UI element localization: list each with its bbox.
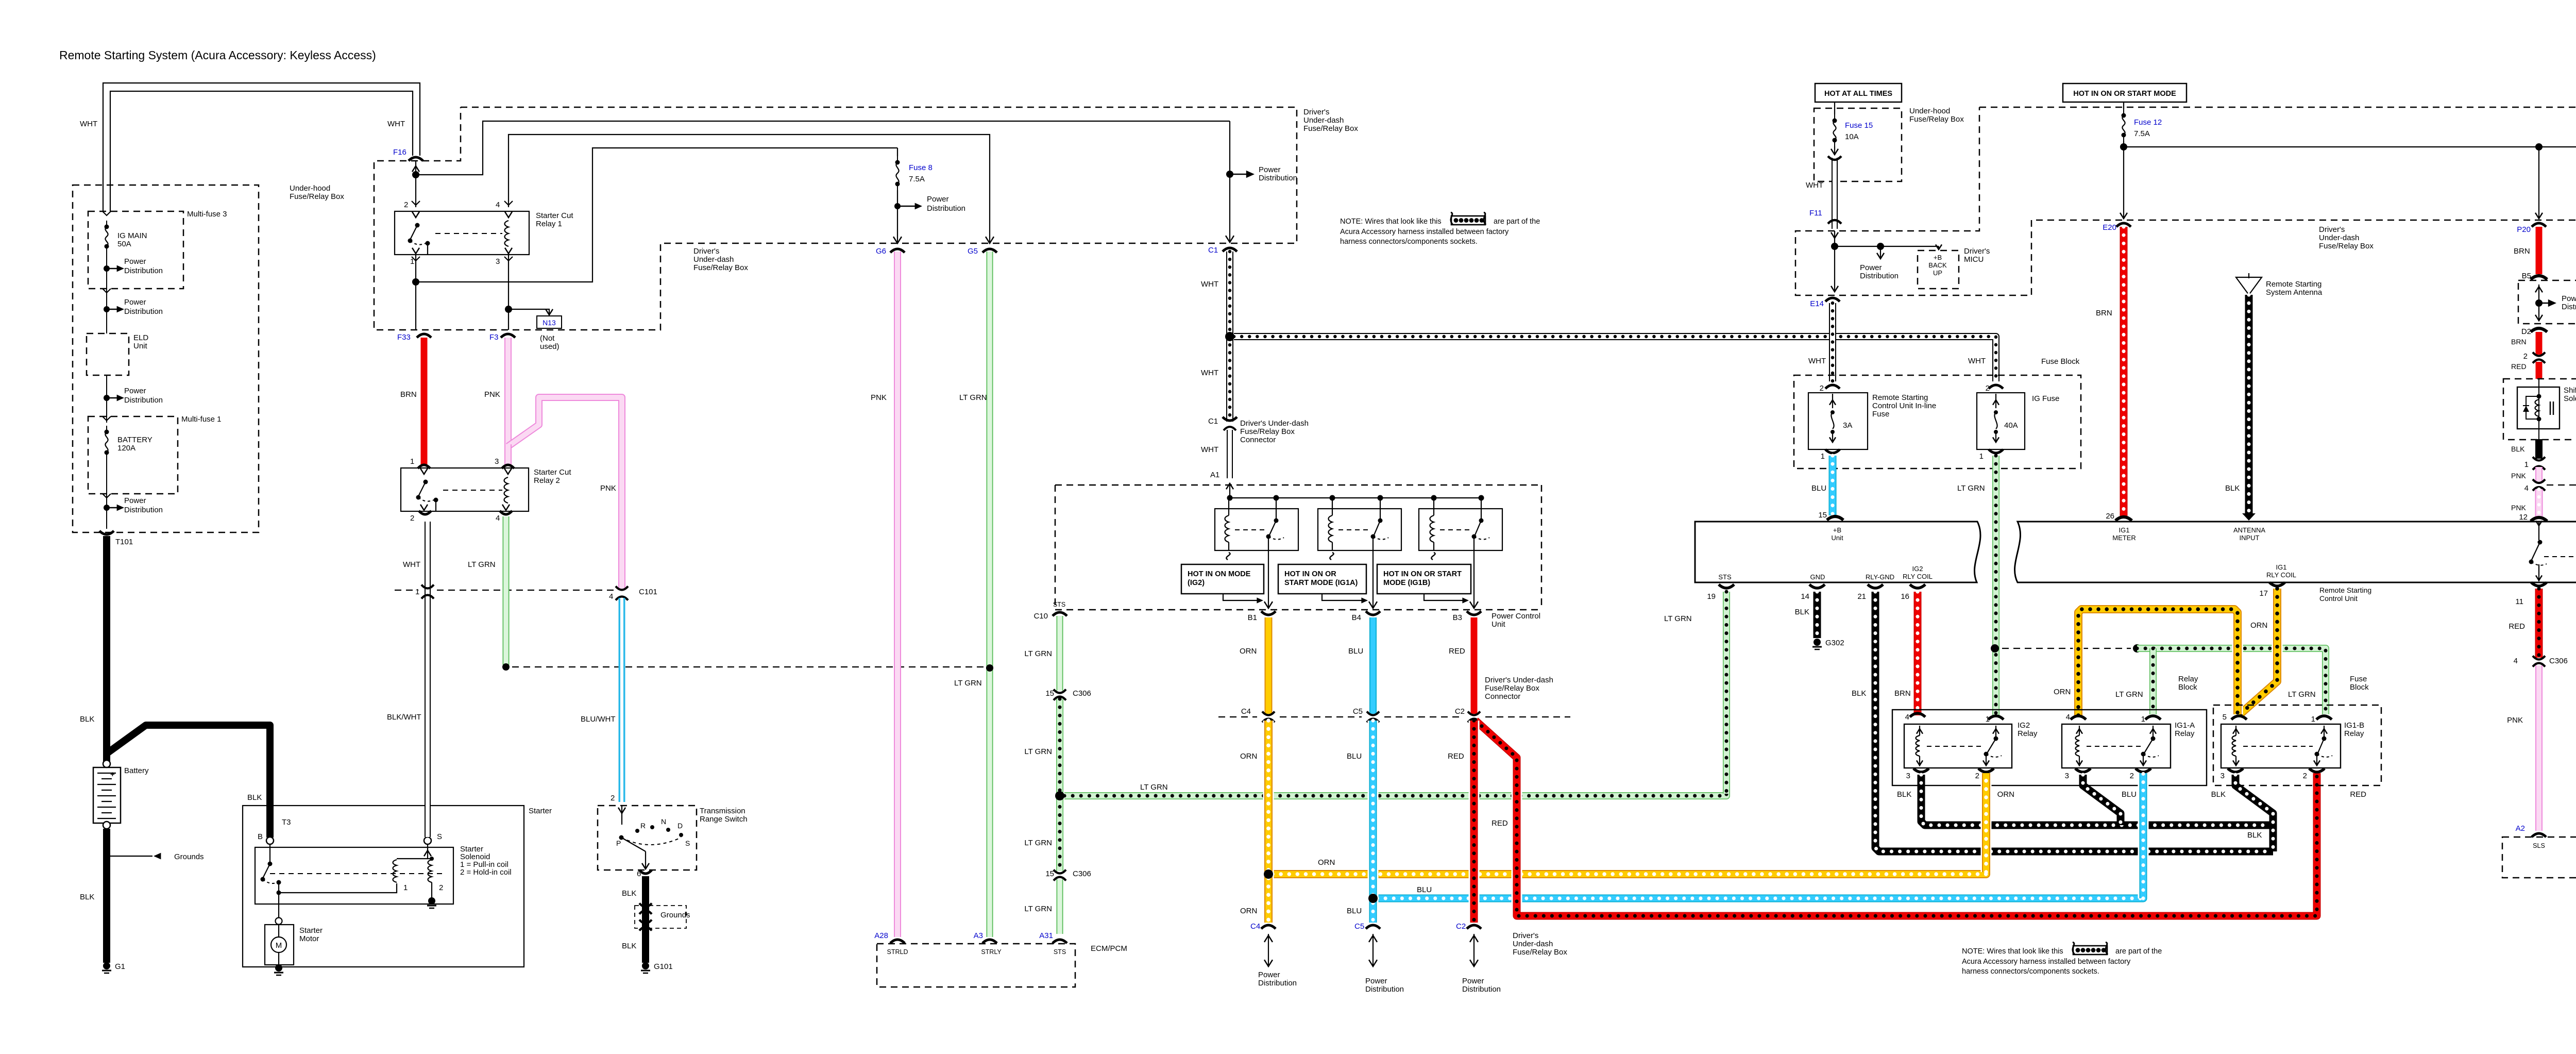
svg-text:2: 2 bbox=[2303, 772, 2307, 780]
svg-text:Under-dash: Under-dash bbox=[693, 255, 734, 264]
relay2 coil bbox=[504, 477, 509, 503]
svg-text:BRN: BRN bbox=[2514, 247, 2530, 256]
relay Starter Cut Relay 2 bbox=[401, 468, 529, 511]
svg-text:Distribution: Distribution bbox=[124, 506, 163, 514]
dashed C306 link to X triangle bbox=[2547, 484, 2576, 486]
svg-text:IG2: IG2 bbox=[1912, 565, 1923, 573]
svg-text:LT GRN: LT GRN bbox=[1957, 484, 1985, 493]
svg-text:Relay: Relay bbox=[2175, 729, 2195, 738]
dashed same-circuit link (relay feeds) bbox=[2002, 648, 2131, 649]
node Power Distribution 2 bbox=[104, 306, 110, 312]
svg-text:7.5A: 7.5A bbox=[2134, 129, 2150, 138]
svg-text:Unit: Unit bbox=[1492, 620, 1506, 629]
svg-text:RED: RED bbox=[1449, 647, 1465, 656]
svg-text:BLK: BLK bbox=[1897, 790, 1911, 799]
svg-text:BLU: BLU bbox=[1347, 752, 1362, 761]
connector strip control unit (main) bbox=[2015, 522, 2576, 582]
box Starter bbox=[243, 806, 524, 967]
svg-text:BLK: BLK bbox=[622, 889, 636, 898]
svg-text:1: 1 bbox=[2311, 715, 2315, 724]
svg-text:Fuse: Fuse bbox=[1872, 410, 1889, 419]
wire PNK beaded to 12 bbox=[2535, 489, 2543, 516]
svg-text:LT GRN: LT GRN bbox=[1664, 614, 1692, 623]
svg-text:STS: STS bbox=[1718, 573, 1732, 581]
wire LT GRN relay2 pin4 down bbox=[503, 516, 510, 665]
node F16 junction bbox=[412, 171, 419, 178]
svg-text:Range Switch: Range Switch bbox=[700, 815, 748, 824]
svg-text:BLU/WHT: BLU/WHT bbox=[581, 715, 616, 724]
svg-text:Power: Power bbox=[124, 298, 146, 307]
box Driver's Under-dash Fuse/Relay Box (left, notched) bbox=[374, 107, 1297, 330]
svg-text:Fuse/Relay Box: Fuse/Relay Box bbox=[1485, 684, 1539, 693]
svg-text:G1: G1 bbox=[115, 962, 125, 971]
box Fuse Block (E14 3A / IG fuse) bbox=[1794, 375, 2081, 469]
wire WHT / BLK-WHT relay2 pin2 to S terminal bbox=[425, 522, 431, 837]
svg-text:LT GRN: LT GRN bbox=[2115, 690, 2143, 699]
svg-text:IG Fuse: IG Fuse bbox=[2032, 394, 2059, 403]
svg-text:17: 17 bbox=[2259, 589, 2268, 598]
svg-text:12: 12 bbox=[2519, 513, 2528, 522]
svg-text:Relay: Relay bbox=[2344, 729, 2364, 738]
svg-text:G6: G6 bbox=[876, 247, 886, 256]
svg-text:3: 3 bbox=[496, 257, 500, 266]
svg-text:LT GRN: LT GRN bbox=[1024, 905, 1052, 913]
wire RED to shift lock solenoid bbox=[2536, 362, 2543, 379]
fuse Fuse 15 10A bbox=[1834, 102, 1835, 114]
svg-text:(IG2): (IG2) bbox=[1188, 579, 1205, 587]
ground G302 bbox=[1814, 639, 1821, 646]
svg-text:C2: C2 bbox=[1455, 707, 1465, 716]
svg-text:Starter Cut: Starter Cut bbox=[534, 468, 571, 477]
wire RED beaded C2 down bbox=[1469, 721, 1480, 923]
svg-text:BLU: BLU bbox=[1417, 885, 1432, 894]
label box HOT IN ON OR START MODE (IG1A) bbox=[1278, 564, 1366, 594]
svg-text:3: 3 bbox=[2221, 772, 2225, 780]
fuse BATTERY 120A bbox=[106, 426, 107, 432]
svg-text:21: 21 bbox=[1857, 592, 1866, 601]
svg-text:WHT: WHT bbox=[1806, 181, 1823, 190]
svg-text:2: 2 bbox=[404, 200, 408, 209]
wire WHT top rail double-line bbox=[103, 83, 420, 211]
svg-text:START MODE (IG1A): START MODE (IG1A) bbox=[1284, 579, 1358, 587]
wire BRN beaded E20 to 26 bbox=[2120, 227, 2128, 516]
svg-text:Fuse Block: Fuse Block bbox=[2041, 357, 2080, 366]
dashed interface line C101 level bbox=[395, 590, 418, 591]
svg-text:5: 5 bbox=[2223, 713, 2227, 722]
svg-text:ORN: ORN bbox=[1318, 858, 1335, 867]
wire ORN beaded IG1-A pin4 link bbox=[2078, 609, 2238, 715]
wire below ELD bbox=[106, 375, 107, 423]
svg-text:Relay 2: Relay 2 bbox=[534, 476, 560, 485]
svg-text:Under-hood: Under-hood bbox=[1909, 107, 1950, 115]
wire RED beaded C2 fork to IG1-B relay bbox=[1476, 721, 2317, 916]
svg-text:+B: +B bbox=[1934, 254, 1942, 261]
svg-text:Distribution: Distribution bbox=[2562, 303, 2576, 311]
svg-text:BLU: BLU bbox=[1811, 484, 1826, 493]
svg-text:Solenoid: Solenoid bbox=[2564, 394, 2576, 403]
connector T101 bbox=[99, 531, 114, 534]
svg-text:M: M bbox=[276, 941, 282, 950]
relay PCU IG1B relay bbox=[1419, 509, 1502, 550]
svg-text:Relay 1: Relay 1 bbox=[536, 220, 562, 228]
svg-text:Power: Power bbox=[124, 257, 146, 266]
svg-text:Driver's: Driver's bbox=[1513, 931, 1538, 940]
svg-text:BRN: BRN bbox=[2511, 338, 2527, 346]
svg-text:BLK/WHT: BLK/WHT bbox=[387, 713, 421, 722]
svg-text:ORN: ORN bbox=[2054, 688, 2071, 696]
svg-text:2: 2 bbox=[2130, 772, 2134, 780]
svg-text:Connector: Connector bbox=[1240, 436, 1276, 444]
svg-text:BATTERY: BATTERY bbox=[117, 436, 152, 444]
svg-text:WHT: WHT bbox=[387, 120, 405, 128]
svg-text:S: S bbox=[437, 832, 442, 841]
svg-text:2: 2 bbox=[1820, 384, 1824, 393]
wire relay1 pin1 to fuse8 bbox=[415, 255, 416, 330]
svg-text:Transmission: Transmission bbox=[700, 807, 745, 815]
svg-text:Driver's: Driver's bbox=[1964, 247, 1990, 256]
svg-text:Fuse/Relay Box: Fuse/Relay Box bbox=[2319, 242, 2374, 250]
box ELD Unit bbox=[87, 333, 129, 375]
svg-text:Distribution: Distribution bbox=[1365, 985, 1404, 994]
svg-text:4: 4 bbox=[1905, 713, 1909, 722]
svg-text:Under-dash: Under-dash bbox=[1513, 940, 1553, 948]
svg-text:Remote Starting: Remote Starting bbox=[2266, 280, 2321, 289]
wire BLK battery feed bbox=[103, 536, 110, 762]
svg-text:2 = Hold-in coil: 2 = Hold-in coil bbox=[460, 868, 512, 877]
svg-text:LT GRN: LT GRN bbox=[1140, 783, 1168, 792]
relay1 coil bbox=[505, 221, 509, 246]
svg-text:Fuse/Relay Box: Fuse/Relay Box bbox=[1909, 115, 1964, 124]
svg-text:MICU: MICU bbox=[1964, 255, 1984, 264]
svg-text:RED: RED bbox=[1492, 819, 1508, 828]
wire BLK IG1-A pin3 diagonal bbox=[2083, 775, 2121, 825]
wire B4 drop inside PCU bbox=[1372, 550, 1374, 608]
svg-text:Starter: Starter bbox=[529, 807, 552, 815]
svg-text:LT GRN: LT GRN bbox=[468, 560, 496, 569]
svg-text:G302: G302 bbox=[1825, 639, 1844, 647]
wire LT GRN beaded riser IG1-A pin1 bbox=[2149, 648, 2157, 714]
fuse box Remote Starting Control Unit In-line Fuse 3A bbox=[1808, 393, 1868, 449]
wire BLK beaded GND to G302 bbox=[1814, 592, 1821, 638]
svg-text:INPUT: INPUT bbox=[2240, 534, 2260, 542]
wire F11 to E14 bbox=[1831, 232, 1838, 238]
solenoid pull-in coil 1 bbox=[393, 860, 397, 882]
label box HOT IN ON OR START MODE (IG1B) bbox=[1377, 564, 1471, 594]
svg-text:Power: Power bbox=[1365, 977, 1387, 985]
connector 15 (+B Unit) bbox=[1827, 516, 1843, 520]
wire LT GRN to A31 bbox=[1057, 879, 1063, 934]
svg-text:Driver's: Driver's bbox=[1303, 108, 1329, 116]
wire WHT C1 power distribution drop bbox=[1229, 121, 1230, 242]
wire WHT to C1 top rail bbox=[416, 121, 1230, 175]
svg-text:3A: 3A bbox=[1843, 421, 1852, 430]
svg-text:S: S bbox=[685, 839, 690, 847]
svg-text:BLU: BLU bbox=[1347, 907, 1362, 915]
box Driver's Under-dash Fuse/Relay Box (right, notched) bbox=[1795, 107, 2576, 295]
wire LT GRN C10 down bbox=[1057, 616, 1063, 691]
svg-text:METER: METER bbox=[2112, 534, 2136, 542]
terminal S bbox=[424, 837, 431, 844]
svg-text:BLK: BLK bbox=[1852, 689, 1866, 698]
svg-text:Driver's Under-dash: Driver's Under-dash bbox=[1240, 419, 1309, 428]
box Fuse Block (relays) bbox=[2213, 705, 2381, 785]
svg-text:GND: GND bbox=[1810, 573, 1825, 581]
svg-text:BRN: BRN bbox=[2096, 309, 2112, 317]
wire BLK branch to starter B bbox=[107, 725, 270, 838]
wire to Power Distribution 1 bbox=[106, 253, 107, 289]
svg-text:A31: A31 bbox=[1039, 931, 1053, 940]
svg-text:A3: A3 bbox=[974, 931, 983, 940]
wire PNK G6 to A28 bbox=[894, 252, 901, 937]
svg-text:ORN: ORN bbox=[1240, 907, 1257, 915]
wire PNK to A2 bbox=[2535, 665, 2543, 831]
node power distribution branch bbox=[1877, 243, 1884, 250]
svg-text:1: 1 bbox=[410, 457, 414, 466]
svg-text:HOT IN ON OR: HOT IN ON OR bbox=[1284, 570, 1336, 578]
svg-text:4: 4 bbox=[496, 514, 500, 523]
svg-text:LT GRN: LT GRN bbox=[1024, 649, 1052, 658]
svg-text:C5: C5 bbox=[1353, 707, 1363, 716]
svg-text:Power: Power bbox=[124, 387, 146, 395]
wire B3 drop inside PCU bbox=[1473, 550, 1475, 608]
wire BLK beaded RLY-GND bbox=[1875, 592, 2273, 851]
svg-text:A2: A2 bbox=[2516, 824, 2525, 833]
svg-text:RED: RED bbox=[2509, 622, 2525, 631]
svg-text:Power Control: Power Control bbox=[1492, 612, 1540, 621]
svg-text:ELD: ELD bbox=[133, 333, 148, 342]
svg-text:LT GRN: LT GRN bbox=[954, 679, 982, 688]
svg-text:Driver's Under-dash: Driver's Under-dash bbox=[1485, 676, 1553, 684]
svg-text:STS: STS bbox=[1054, 948, 1066, 956]
svg-text:4: 4 bbox=[496, 200, 500, 209]
wire F16 to relay1 pin2 bbox=[415, 161, 416, 207]
svg-text:R: R bbox=[640, 822, 646, 830]
svg-text:RED: RED bbox=[2511, 362, 2527, 371]
wire BLU beaded C5 down bbox=[1368, 721, 1379, 923]
svg-text:Fuse 15: Fuse 15 bbox=[1845, 121, 1873, 130]
wire BLK beaded antenna down bbox=[2245, 295, 2253, 513]
solenoid ground bbox=[431, 882, 432, 898]
wire left feed bbox=[106, 289, 107, 333]
svg-text:IG1-A: IG1-A bbox=[2175, 721, 2195, 730]
svg-text:RLY COIL: RLY COIL bbox=[1903, 573, 1933, 580]
relay PCU IG1A relay bbox=[1318, 509, 1401, 550]
svg-text:IG2: IG2 bbox=[2018, 721, 2030, 730]
svg-text:C2: C2 bbox=[1456, 922, 1466, 931]
grounds boxlet bbox=[635, 906, 686, 928]
dashed under-dash connector line bbox=[1218, 716, 1257, 717]
fuse box IG Fuse 40A bbox=[1977, 393, 2025, 449]
wire BRN D2 bbox=[2536, 332, 2543, 355]
svg-text:ECM/PCM: ECM/PCM bbox=[1091, 944, 1127, 953]
node LT GRN dashed link right (redraw) bbox=[986, 664, 993, 672]
svg-text:E14: E14 bbox=[1810, 299, 1824, 308]
svg-text:C306: C306 bbox=[1073, 869, 1091, 878]
svg-text:IG MAIN: IG MAIN bbox=[117, 231, 147, 240]
wire PNK into relay2 pin3 bbox=[504, 444, 512, 465]
svg-text:10A: 10A bbox=[1845, 132, 1859, 141]
wire relay1 pin3 to F3 bbox=[508, 255, 509, 330]
svg-text:1: 1 bbox=[1821, 452, 1825, 461]
svg-text:Fuse 12: Fuse 12 bbox=[2134, 118, 2162, 127]
svg-text:Fuse/Relay Box: Fuse/Relay Box bbox=[693, 263, 748, 272]
svg-text:SLS: SLS bbox=[2533, 842, 2545, 849]
svg-text:Relay: Relay bbox=[2178, 675, 2198, 683]
svg-text:2: 2 bbox=[2523, 352, 2528, 361]
battery bbox=[103, 760, 110, 767]
svg-text:+B: +B bbox=[1833, 526, 1841, 534]
svg-text:2: 2 bbox=[410, 514, 414, 523]
wire WHT C1 to A1 bbox=[1227, 430, 1233, 478]
svg-text:Power: Power bbox=[927, 195, 949, 204]
node C1 power distribution bbox=[1226, 171, 1233, 178]
wire ORN beaded C4 down bbox=[1263, 721, 1274, 923]
wire BLK shift lock down bbox=[2538, 429, 2539, 439]
box Driver's Junction Box 1 (left part, power distribution) bbox=[2518, 280, 2576, 324]
svg-text:3: 3 bbox=[495, 457, 499, 466]
svg-text:BRN: BRN bbox=[400, 390, 417, 399]
svg-text:Remote Starting: Remote Starting bbox=[2319, 586, 2371, 594]
wire LT GRN beaded horizontal (STS link) bbox=[1064, 600, 1726, 796]
svg-text:are part of the: are part of the bbox=[2115, 947, 2162, 956]
connector N13 (not used) bbox=[509, 309, 549, 315]
wire BLU B4 to C5 bbox=[1369, 617, 1377, 714]
svg-text:PNK: PNK bbox=[2507, 716, 2523, 725]
svg-text:Driver's: Driver's bbox=[693, 247, 719, 256]
wire ORN beaded horizontal to IG2 relay bbox=[1273, 773, 1986, 874]
antenna Remote Starting System Antenna bbox=[2236, 277, 2262, 295]
svg-text:C4: C4 bbox=[1241, 707, 1251, 716]
svg-text:Driver's: Driver's bbox=[2319, 225, 2345, 234]
svg-text:HOT IN ON OR START MODE: HOT IN ON OR START MODE bbox=[2073, 90, 2176, 98]
wire LT GRN G5 to A3 bbox=[987, 252, 993, 937]
svg-text:Fuse/Relay Box: Fuse/Relay Box bbox=[1513, 948, 1567, 957]
svg-text:1: 1 bbox=[403, 883, 408, 892]
svg-text:LT GRN: LT GRN bbox=[1024, 839, 1052, 847]
svg-text:Distribution: Distribution bbox=[1462, 985, 1501, 994]
svg-text:11: 11 bbox=[2515, 597, 2523, 606]
svg-text:harness connectors/components: harness connectors/components sockets. bbox=[1340, 238, 1478, 246]
svg-text:2: 2 bbox=[439, 883, 443, 892]
wire RED B3 to C2 bbox=[1471, 617, 1478, 714]
node dashed link right bbox=[2133, 644, 2141, 653]
svg-text:Relay: Relay bbox=[2018, 729, 2038, 738]
svg-text:Control Unit In-line: Control Unit In-line bbox=[1872, 401, 1936, 410]
svg-text:MODE (IG1B): MODE (IG1B) bbox=[1383, 579, 1430, 587]
svg-text:1: 1 bbox=[1979, 452, 1984, 461]
svg-text:A1: A1 bbox=[1210, 471, 1219, 479]
wire PNK branch to C101 bbox=[508, 397, 622, 589]
svg-text:Power: Power bbox=[1860, 263, 1882, 272]
wire RED beaded IG2 RLY COIL to relay pin4 bbox=[1914, 592, 1922, 715]
svg-text:BLK: BLK bbox=[1795, 608, 1809, 616]
wire LT GRN beaded horizontal to IG1-B pin1 bbox=[2137, 648, 2326, 714]
connector A1 bbox=[1226, 483, 1233, 489]
strip internal relay switch bbox=[2538, 522, 2539, 540]
svg-text:Unit: Unit bbox=[133, 342, 148, 350]
power distribution arrows below C4 C5 C2 bbox=[1268, 934, 1269, 966]
grounds arrow bbox=[110, 856, 152, 857]
svg-text:ANTENNA: ANTENNA bbox=[2233, 526, 2265, 534]
box Relay Block bbox=[1892, 710, 2207, 785]
svg-text:B4: B4 bbox=[1352, 613, 1361, 622]
svg-text:C4: C4 bbox=[1250, 922, 1260, 931]
svg-text:HOT IN ON MODE: HOT IN ON MODE bbox=[1188, 570, 1251, 578]
wire WHT F11 double-line bbox=[1832, 158, 1838, 229]
svg-text:ORN: ORN bbox=[1240, 647, 1257, 656]
starter solenoid switch bbox=[269, 844, 270, 864]
svg-text:STRLY: STRLY bbox=[981, 948, 1002, 956]
svg-text:T3: T3 bbox=[282, 818, 291, 827]
svg-text:harness connectors/components: harness connectors/components sockets. bbox=[1962, 967, 2099, 976]
svg-text:PNK: PNK bbox=[600, 484, 616, 493]
svg-text:Acura Accessory harness instal: Acura Accessory harness installed betwee… bbox=[1962, 958, 2131, 966]
wire LT GRN beaded pin19 riser bbox=[1723, 592, 1730, 794]
svg-text:Distribution: Distribution bbox=[1258, 979, 1297, 988]
svg-text:(Not: (Not bbox=[540, 334, 555, 343]
box Power Control Unit bbox=[1055, 484, 1541, 486]
box Starter Solenoid bbox=[255, 847, 453, 904]
svg-text:3: 3 bbox=[2065, 772, 2069, 780]
node LT GRN dashed-link left bbox=[1991, 644, 1999, 653]
svg-text:Acura Accessory harness instal: Acura Accessory harness installed betwee… bbox=[1340, 228, 1509, 236]
svg-text:Starter: Starter bbox=[299, 926, 323, 935]
svg-text:P20: P20 bbox=[2517, 225, 2531, 234]
relay2 switch bbox=[423, 480, 428, 484]
svg-text:WHT: WHT bbox=[1201, 369, 1218, 377]
svg-text:C1: C1 bbox=[1208, 417, 1218, 426]
svg-text:PNK: PNK bbox=[871, 393, 887, 402]
wire RED P20 to B5 bbox=[2536, 227, 2543, 274]
svg-text:2: 2 bbox=[611, 794, 615, 802]
svg-text:WHT: WHT bbox=[1201, 445, 1218, 454]
label box HOT AT ALL TIMES bbox=[1815, 83, 1902, 102]
node ORN junction bbox=[1264, 869, 1273, 879]
wire BLK IG2 pin3 chain bbox=[1921, 775, 2273, 825]
svg-text:LT GRN: LT GRN bbox=[959, 393, 987, 402]
svg-text:2: 2 bbox=[1975, 772, 1979, 780]
svg-text:LT GRN: LT GRN bbox=[2288, 690, 2316, 699]
svg-text:120A: 120A bbox=[117, 444, 135, 453]
wire BLK IG1-B pin3 diagonal bbox=[2235, 775, 2273, 851]
wire ORN riser to IG2 pin2 (over BLK) bbox=[1981, 773, 1992, 872]
wire PNK park pin bbox=[2535, 467, 2543, 481]
svg-text:PNK: PNK bbox=[2511, 472, 2526, 480]
svg-text:BLK: BLK bbox=[2225, 484, 2240, 493]
wire to T101 bbox=[106, 459, 107, 529]
node F11 junction bbox=[1831, 243, 1838, 250]
svg-text:Remote Starting System (Acura: Remote Starting System (Acura Accessory:… bbox=[59, 48, 376, 62]
svg-text:Power: Power bbox=[2562, 294, 2576, 303]
shift lock solenoid bbox=[2538, 379, 2539, 387]
svg-text:HOT AT ALL TIMES: HOT AT ALL TIMES bbox=[1824, 90, 1892, 98]
svg-text:Distribution: Distribution bbox=[1860, 272, 1899, 280]
svg-text:50A: 50A bbox=[117, 240, 131, 248]
relay PCU IG2 relay bbox=[1215, 509, 1298, 550]
wire B1 drop inside PCU bbox=[1268, 550, 1269, 608]
svg-text:BRN: BRN bbox=[1894, 689, 1911, 698]
svg-text:40A: 40A bbox=[2004, 421, 2018, 430]
svg-text:16: 16 bbox=[1901, 592, 1909, 601]
svg-text:A28: A28 bbox=[874, 931, 888, 940]
svg-text:C10: C10 bbox=[1033, 612, 1048, 621]
svg-text:G101: G101 bbox=[654, 962, 673, 971]
relay IG2 Relay bbox=[1904, 724, 2012, 768]
svg-text:C5: C5 bbox=[1354, 922, 1364, 931]
node LT GRN dashed link left bbox=[502, 663, 510, 671]
wire BLU beaded horizontal to IG1-A relay bbox=[1377, 773, 2143, 898]
svg-text:E20: E20 bbox=[2103, 223, 2116, 232]
